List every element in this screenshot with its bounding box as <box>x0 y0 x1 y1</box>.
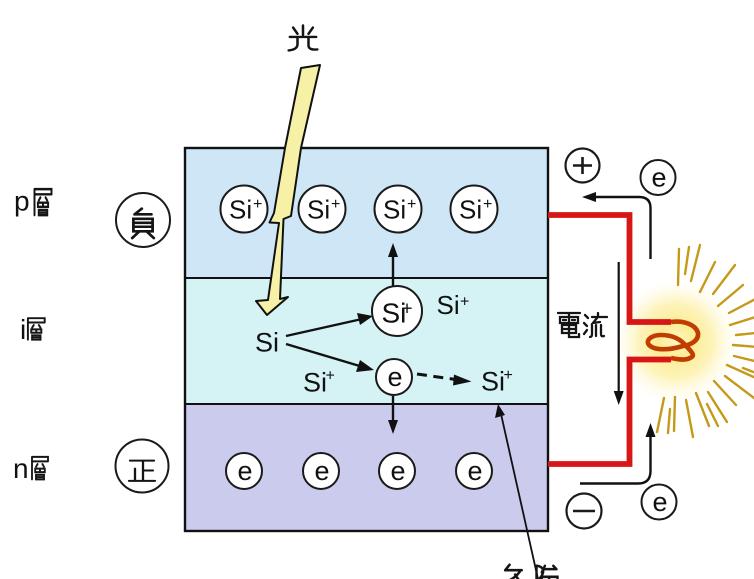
svg-text:+: + <box>460 294 469 311</box>
svg-text:Si: Si <box>383 195 406 225</box>
bulb rays <box>657 245 754 437</box>
svg-text:n: n <box>13 453 29 484</box>
plus terminal circle <box>566 149 600 183</box>
n-layer <box>185 404 548 531</box>
Si+ ion circle 3 (p-layer) <box>375 186 422 233</box>
正 circle (positive electrode label) <box>116 440 169 493</box>
i/n boundary <box>185 403 548 405</box>
svg-text:i: i <box>20 314 26 345</box>
label i層 <box>20 314 45 345</box>
electron flow arrow bottom right <box>580 423 656 484</box>
svg-text:+: + <box>504 367 513 384</box>
svg-text:+: + <box>331 196 340 213</box>
label 欠陥 (defect, cut off at bottom) <box>505 565 557 579</box>
svg-text:e: e <box>652 163 667 193</box>
svg-text:Si: Si <box>303 368 327 398</box>
dashed arrow e to Si+ <box>417 374 472 386</box>
bulb glow <box>614 279 738 403</box>
svg-text:+: + <box>326 368 335 385</box>
electron circle 3 (n-layer) <box>379 453 415 489</box>
Si+ ion circle 1 (p-layer) <box>221 186 268 233</box>
label p層 <box>14 186 52 217</box>
electron circle 1 (n-layer) <box>226 453 262 489</box>
svg-text:Si: Si <box>437 290 460 320</box>
svg-text:+: + <box>483 196 492 213</box>
svg-text:Si: Si <box>229 195 252 225</box>
arrow Si to Si+ circle <box>286 313 373 336</box>
svg-text:e: e <box>391 456 406 486</box>
負 circle (negative electrode label) <box>116 193 170 247</box>
bulb filament <box>648 322 698 360</box>
p-layer <box>185 148 548 278</box>
current down arrow <box>614 262 624 405</box>
Si+ ion circle 4 (p-layer) <box>451 186 498 233</box>
lightning bolt <box>256 65 320 315</box>
electron flow arrow top right <box>582 192 651 259</box>
up arrow from Si+ (i-layer) to p-layer <box>388 243 398 286</box>
defect pointer line (欠陥 arrow) <box>495 404 538 579</box>
svg-text:p: p <box>14 186 30 217</box>
svg-text:Si: Si <box>255 328 279 358</box>
down arrow from e into n-layer <box>388 396 398 434</box>
minus terminal circle <box>567 494 602 529</box>
p/i boundary <box>185 277 548 279</box>
svg-text:Si: Si <box>307 195 330 225</box>
electron circle 4 (n-layer) <box>456 453 492 489</box>
svg-text:Si: Si <box>459 195 482 225</box>
svg-text:e: e <box>315 456 330 486</box>
svg-text:e: e <box>238 456 253 486</box>
i-layer <box>185 278 548 404</box>
svg-text:+: + <box>402 299 413 320</box>
svg-text:e: e <box>388 362 403 392</box>
electron circle bottom right <box>642 485 677 520</box>
electron circle 2 (n-layer) <box>303 453 339 489</box>
electron circle top right <box>641 160 676 195</box>
label n層 <box>13 453 48 484</box>
electron circle e (i-layer) <box>376 359 412 395</box>
cell outline <box>185 148 548 531</box>
Si+ ion circle 2 (p-layer) <box>299 186 346 233</box>
red wire top run <box>548 215 671 322</box>
svg-text:+: + <box>253 196 262 213</box>
svg-text:+: + <box>407 196 416 213</box>
Si+ ion circle (i-layer) <box>372 286 422 336</box>
svg-text:e: e <box>468 456 483 486</box>
svg-text:e: e <box>653 487 668 517</box>
電流 label (current) <box>558 313 607 337</box>
arrow Si to e circle <box>286 344 374 372</box>
label 光 (light) <box>289 25 318 50</box>
svg-text:Si: Si <box>481 367 505 397</box>
red wire bottom run <box>548 360 671 465</box>
